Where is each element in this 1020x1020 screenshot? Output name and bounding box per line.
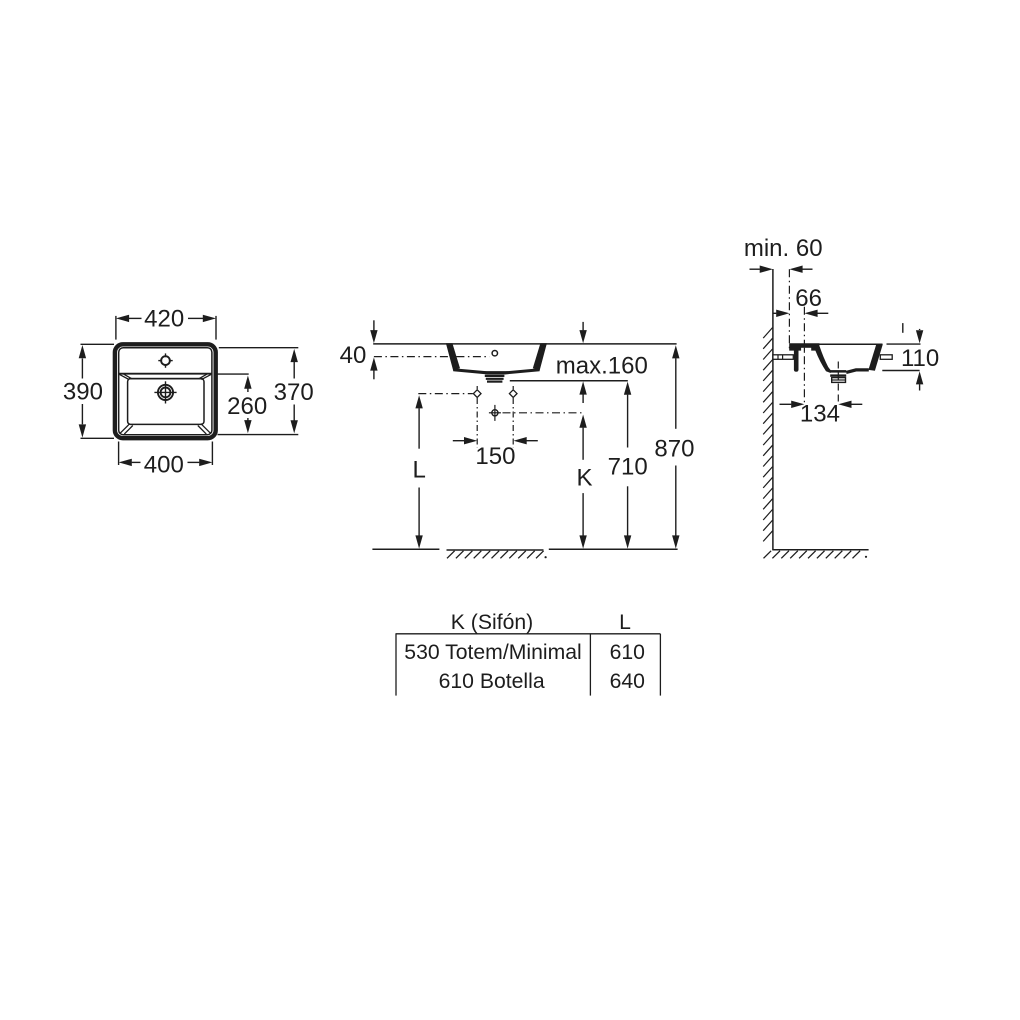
svg-text:610: 610 [610,641,645,664]
dim 370 extension lines [219,347,298,349]
svg-text:max.160: max.160 [556,352,648,379]
plan bowl mitre top-left [120,374,130,379]
dim 420 extension lines [115,316,117,340]
plan outer rim [115,344,216,438]
plan bowl mitre bottom-right [201,424,211,434]
back axis dash-dot [788,269,790,351]
dim 420 [129,317,142,319]
plan bowl mitre top-right [201,374,211,379]
small tick above [902,323,904,333]
drain axis dash side [837,362,839,405]
dim 710 [624,382,631,395]
plan drain mark [154,381,176,403]
overflow hole [492,351,497,356]
svg-text:610 Botella: 610 Botella [439,670,545,693]
floor line side view [772,549,868,551]
svg-text:L: L [413,457,426,484]
dim 390 [81,359,83,379]
dim 400 [132,461,141,463]
svg-text:390: 390 [63,379,103,406]
dim 150 [453,440,464,442]
overflow axis dash-dot [374,356,490,358]
svg-text:370: 370 [274,379,314,406]
svg-text:K (Sifón): K (Sifón) [451,611,533,634]
svg-text:min. 60: min. 60 [744,235,823,262]
bracket tab right [880,355,892,360]
svg-text:134: 134 [800,401,840,428]
side basin bottom line [846,370,869,373]
dim L [415,395,422,408]
wall face line [772,269,774,550]
countertop line [373,343,676,345]
top view: plan of basin [63,306,314,479]
svg-text:530 Totem/Minimal: 530 Totem/Minimal [404,641,581,664]
table vertical borders [395,634,397,696]
dim 40 [373,320,375,331]
svg-text:640: 640 [610,670,645,693]
side basin front wall [868,344,882,371]
svg-text:710: 710 [608,453,648,480]
wall hatch [763,328,772,542]
wall bracket tab left [773,355,793,360]
dim 134 [780,403,792,405]
svg-text:400: 400 [144,452,184,479]
plan bowl bottom rect [128,379,204,425]
svg-text:870: 870 [654,435,694,462]
dim 110 [919,329,921,330]
plan deck divider line [119,373,212,375]
dim 260 extension line [214,373,249,375]
dim K [579,415,586,428]
fixing bolt axis right [509,390,517,398]
dim 390 extension lines [81,343,115,345]
svg-text:L: L [619,611,631,634]
drain tailpiece threads [484,371,508,374]
table of siphon variants [396,611,661,695]
dim 870 [672,345,679,358]
side drain block [830,370,846,373]
basin left wall [446,343,460,370]
bolt axis horizontal dash-dot [418,393,473,395]
svg-text:66: 66 [795,285,822,312]
plan bowl top edge [129,378,203,380]
dim 260 [247,389,249,393]
plan bowl mitre bottom-left [120,424,130,434]
plan faucet hole mark [158,353,172,367]
side view: section at wall [744,235,939,559]
bolt axis dash-dot side [803,307,805,405]
floor line front view [372,548,439,550]
bolt axis through slot [803,348,805,352]
svg-text:110: 110 [901,345,939,372]
max160 lower reference line [510,380,628,382]
floor hatch side view [764,551,861,559]
side basin back wall [794,350,799,372]
table header rule [396,633,661,635]
svg-text:150: 150 [475,443,515,470]
front view: elevation [340,320,695,558]
dim 400 extension lines [118,442,120,466]
svg-text:40: 40 [340,342,367,369]
basin right wall [533,343,547,370]
fixing bolt axis left [473,390,481,398]
svg-text:260: 260 [227,393,267,420]
svg-text:420: 420 [144,306,184,333]
side basin rim line [790,343,883,345]
dim max.160 [582,322,584,331]
plan inner rim [119,348,212,435]
dim 370 [293,362,295,379]
floor hatch front view [447,549,544,551]
side basin back slope [815,346,830,373]
side basin deck block [789,343,819,350]
drain axis horizontal dash-dot [503,412,584,414]
svg-text:K: K [576,464,592,491]
rim extension line right [887,343,921,345]
drain axis mark [492,410,498,416]
basin bottom [453,368,539,374]
